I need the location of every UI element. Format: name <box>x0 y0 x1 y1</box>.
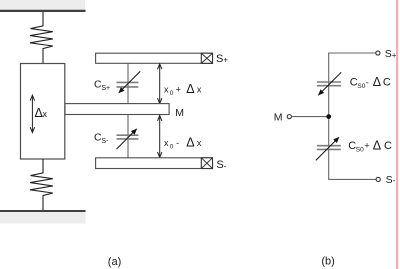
svg-text:(b): (b) <box>321 255 334 267</box>
svg-text:Δ: Δ <box>373 138 381 152</box>
arrow delta-x <box>31 97 33 132</box>
wire to S- terminal <box>328 178 376 180</box>
svg-text:-: - <box>176 138 179 148</box>
svg-text:-: - <box>224 161 227 170</box>
terminal S- <box>376 177 380 181</box>
svg-text:S+: S+ <box>101 85 110 92</box>
svg-text:x: x <box>164 84 169 94</box>
svg-text:S: S <box>216 159 223 171</box>
svg-text:+: + <box>364 141 369 151</box>
bottom wall <box>0 210 86 212</box>
svg-text:M: M <box>175 107 184 119</box>
svg-text:x: x <box>197 84 202 94</box>
dimension arrow x0+dx <box>159 64 161 103</box>
mass body <box>21 64 65 160</box>
svg-text:S0: S0 <box>357 83 365 90</box>
svg-text:Δ: Δ <box>373 75 381 89</box>
movable plate M <box>65 104 169 115</box>
terminal S+ <box>376 51 380 55</box>
svg-text:S-: S- <box>101 138 109 145</box>
top wall <box>0 0 85 10</box>
svg-text:(a): (a) <box>108 256 121 268</box>
anchor box S- <box>201 158 212 169</box>
anchor box S+ <box>201 53 212 63</box>
svg-text:-: - <box>366 77 369 87</box>
capacitor CS0+dC <box>317 145 341 147</box>
svg-text:M: M <box>274 111 283 123</box>
dimension arrow x0-dx <box>159 116 161 158</box>
svg-text:x: x <box>197 138 202 148</box>
svg-text:C: C <box>384 140 392 152</box>
svg-text:S: S <box>385 48 392 60</box>
svg-text:x: x <box>164 138 169 148</box>
capacitor CS0-dC <box>317 81 341 83</box>
capacitor CS+ <box>117 81 139 83</box>
svg-text:+: + <box>176 84 181 94</box>
svg-text:-: - <box>393 176 396 185</box>
svg-text:C: C <box>383 76 391 88</box>
svg-text:+: + <box>223 56 228 65</box>
bus wire (b) <box>328 53 330 179</box>
spring K2 (bottom) <box>30 159 53 210</box>
fixed plate S- <box>96 158 213 169</box>
svg-text:x: x <box>43 109 48 119</box>
svg-text:0: 0 <box>170 90 174 97</box>
wire cap-to-plate (bottom) <box>127 115 129 158</box>
fixed plate S+ <box>96 53 213 63</box>
spring K1 (top) <box>30 12 53 64</box>
svg-text:0: 0 <box>170 143 174 150</box>
wire to S+ terminal <box>328 52 376 54</box>
svg-text:S: S <box>216 53 223 65</box>
wire plate-to-cap (top) <box>127 63 129 103</box>
capacitor CS- <box>117 134 139 136</box>
svg-text:S0: S0 <box>356 147 364 154</box>
frame edge (right) <box>396 0 398 269</box>
svg-text:S: S <box>386 174 393 186</box>
wire M to bus <box>292 116 329 118</box>
svg-text:Δ: Δ <box>186 82 194 96</box>
svg-text:Δ: Δ <box>186 135 194 149</box>
junction node M <box>326 114 331 119</box>
